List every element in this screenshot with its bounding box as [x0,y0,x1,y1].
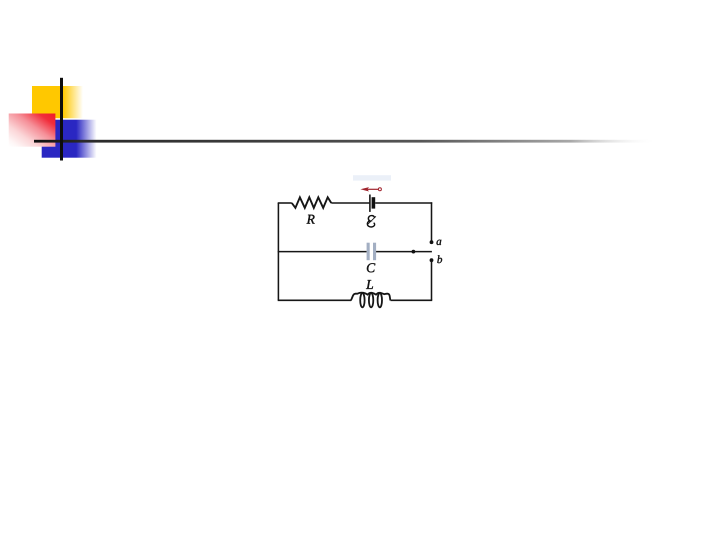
label EMF script E [367,216,375,227]
label a [437,240,442,245]
faint highlight band [353,175,391,180]
switch arrow (red) [360,187,381,191]
resistor R [292,197,332,208]
wire right vertical lower [431,262,433,301]
label R [307,215,315,224]
wire bottom left segment [278,299,351,301]
inductor L coil [351,293,391,308]
wire right vertical upper [431,202,433,240]
label b [437,255,442,263]
battery EMF source [370,195,375,212]
wire middle right segment [376,251,432,253]
wire top left segment [278,202,292,204]
wire left vertical [277,203,279,300]
label C [367,263,375,272]
node b [430,258,434,262]
wire bottom right segment [391,299,433,301]
junction node [412,250,416,254]
wire middle left segment [278,251,367,253]
node a [430,240,434,244]
wire top middle segment [331,202,370,204]
label L [366,280,373,289]
capacitor C plates [367,243,377,261]
wire top right segment [375,202,432,204]
